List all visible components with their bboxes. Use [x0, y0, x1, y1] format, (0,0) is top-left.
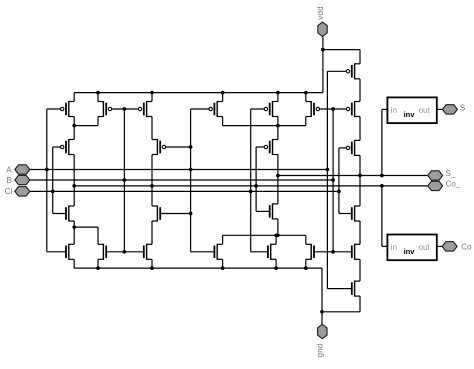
- junction dot vdd branch: [321, 48, 325, 52]
- wire: S_ (sum-bar) bus line: [278, 175, 428, 177]
- svg-text:in: in: [391, 106, 397, 115]
- svg-text:Ci: Ci: [5, 187, 13, 196]
- wire: gnd branch to nmos chain: [322, 311, 360, 313]
- svg-text:inv: inv: [404, 247, 416, 256]
- wire: carry pmos internal node: [74, 125, 98, 127]
- PMOS transistor P5 (gate A): [152, 139, 166, 155]
- NMOS transistor N4 (gate A): [152, 206, 160, 222]
- NMOS transistor N2 (gate A): [66, 244, 74, 260]
- wire: column x=222.6 drain/source leads: [222, 93, 224, 102]
- wire: gnd pin vertical: [321, 268, 323, 324]
- junction dots on Co_ line: [72, 184, 76, 188]
- svg-text:Co_: Co_: [446, 180, 461, 189]
- pin Ci: [15, 187, 30, 196]
- wire: B net left vertical (P2,P3/N3,N6 gates): [123, 109, 125, 252]
- pin S_: [428, 171, 443, 180]
- svg-text:out: out: [419, 243, 431, 252]
- wire: column x=276.1 drain/source leads: [275, 235, 277, 244]
- wire: gnd rail: [74, 267, 322, 269]
- wire: Co-inverter input: [381, 186, 383, 247]
- svg-text:vdd: vdd: [315, 6, 325, 20]
- wire: vdd rail: [74, 92, 323, 94]
- wire: input Ci bus line: [30, 190, 339, 192]
- PMOS transistor PC3 (gate Ci): [346, 140, 360, 156]
- wire: column x=152 drain/source leads: [151, 93, 153, 102]
- junction dots gate nets: [123, 107, 127, 111]
- wire: column x=74.2 drain/source leads: [73, 93, 75, 102]
- wire: column x=360 transistor chain leads: [359, 50, 361, 64]
- junction dot gnd branch: [320, 310, 324, 314]
- junction dots on B line: [123, 178, 127, 182]
- wire: Co_ (carry-bar) bus line: [74, 185, 428, 187]
- PMOS transistor PC1 (gate A): [346, 63, 360, 79]
- svg-text:B: B: [7, 176, 12, 185]
- wire: A net left vertical (P1/N2 gates): [46, 109, 48, 252]
- NMOS transistor N3 (gate B): [98, 244, 106, 260]
- svg-text:S: S: [460, 104, 465, 113]
- PMOS transistor P3 (gate B): [138, 101, 152, 117]
- wire: Co_ net mid vertical (P8/NT gates): [255, 147, 257, 211]
- PMOS transistor P7a (gate Ci): [264, 101, 278, 117]
- wire: input A bus line: [30, 169, 328, 171]
- pin Co_: [428, 181, 443, 190]
- svg-text:S_: S_: [446, 169, 456, 178]
- pin gnd: [318, 324, 327, 338]
- NMOS transistor N12 (gate A): [352, 281, 360, 297]
- wire: column x=305.8 drain/source leads: [305, 93, 307, 102]
- pin B: [15, 175, 30, 184]
- PMOS transistor P7b (gate B): [306, 101, 320, 117]
- PMOS transistor P1 (gate A): [61, 101, 75, 117]
- wire: vdd branch to pmos chain: [323, 49, 360, 51]
- wire: A net right vertical (PC1/N12 gates): [326, 71, 328, 288]
- svg-text:Co: Co: [461, 242, 472, 251]
- wire: A net mid vertical (P5,P6/N4,N5 gates): [190, 109, 192, 252]
- junction dots on A line: [45, 168, 49, 172]
- NMOS transistor NT (gate Co_): [270, 203, 278, 219]
- PMOS transistor P6 (gate A): [209, 101, 223, 117]
- svg-text:out: out: [419, 106, 431, 115]
- pin A: [15, 165, 30, 174]
- svg-text:gnd: gnd: [314, 343, 324, 357]
- NMOS transistor N10 (gate Ci): [352, 206, 360, 222]
- PMOS transistor PC2 (gate B): [346, 101, 360, 117]
- NMOS transistor NB (gate Ci): [268, 244, 276, 260]
- wire: Ci net left vertical (P4/N1 gates): [52, 147, 54, 214]
- svg-text:inv: inv: [404, 110, 416, 119]
- wire: sum nmos internal node: [223, 234, 306, 236]
- NMOS transistor N1 (gate Ci): [66, 206, 74, 222]
- NMOS transistor N11 (gate B): [352, 244, 360, 260]
- junction dots on Ci line: [51, 190, 55, 194]
- PMOS transistor P8 (gate Co_): [264, 139, 278, 155]
- wire: B net right vertical (P7b,PC2/N8,N11 gates): [332, 109, 334, 252]
- svg-text:in: in: [391, 243, 397, 252]
- inverter U1 (sum) box: [387, 97, 436, 123]
- NMOS transistor N5 (gate A): [214, 244, 222, 260]
- NMOS transistor N8 (gate B): [306, 244, 314, 260]
- PMOS transistor P2 (gate B): [98, 101, 112, 117]
- wire: U2 output lead: [437, 245, 442, 247]
- wire: U1 output lead: [437, 108, 442, 110]
- wire: input B bus line: [30, 179, 334, 181]
- wire: carry nmos internal node: [74, 226, 98, 228]
- wire: column x=277.9 drain/source leads: [277, 93, 279, 102]
- pin Co: [442, 242, 457, 251]
- junction dots internal nodes: [72, 124, 76, 128]
- PMOS transistor P4 (gate Ci): [61, 139, 75, 155]
- wire: S-inverter input: [381, 109, 383, 175]
- NMOS transistor N6 (gate B): [144, 244, 152, 260]
- svg-text:A: A: [6, 166, 12, 175]
- wire: Ci net right vertical (PC3/N10 gates): [338, 148, 340, 214]
- junction dots on S_ line: [276, 174, 280, 178]
- junction dots on gnd rail: [96, 266, 100, 270]
- junction dots on vdd rail: [96, 91, 100, 95]
- wire: vdd pin vertical: [322, 37, 324, 93]
- pin S: [442, 105, 457, 114]
- inverter U2 (carry) box: [387, 235, 436, 261]
- wire: sum pmos internal node: [223, 125, 306, 127]
- pin vdd: [318, 22, 327, 36]
- wire: Ci net mid vertical (P7a/NB gates): [250, 109, 252, 252]
- wire: column x=98 drain/source leads: [97, 93, 99, 102]
